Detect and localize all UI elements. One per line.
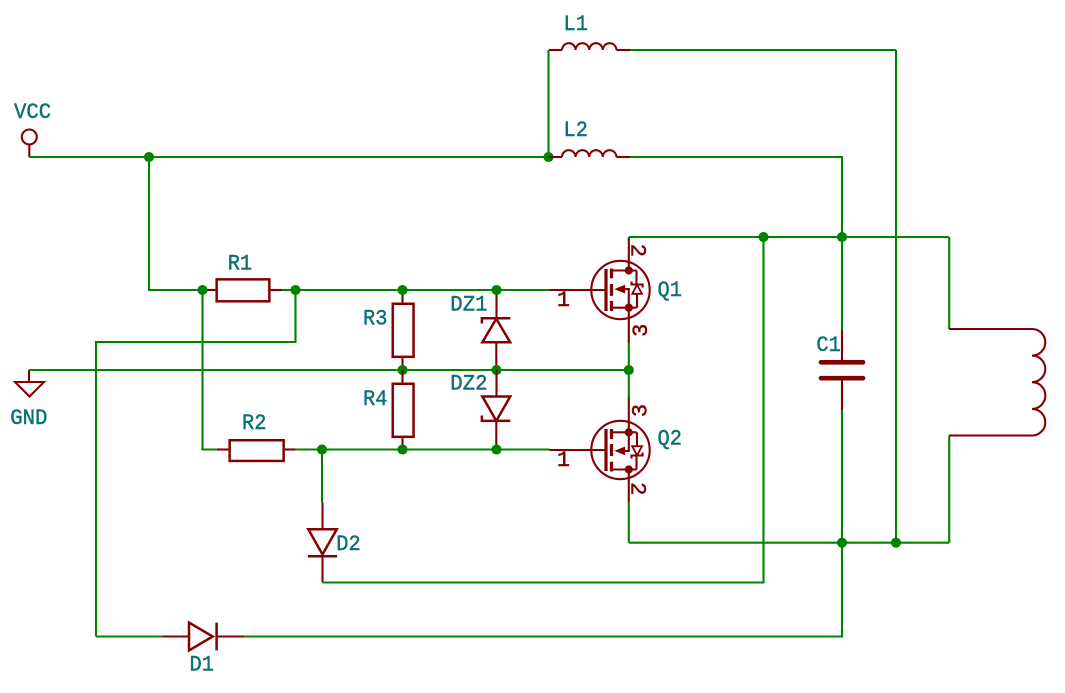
svg-text:GND: GND <box>10 406 47 431</box>
resistor R3 <box>393 290 414 370</box>
transistor Q1 <box>550 238 650 343</box>
svg-text:1: 1 <box>557 288 570 313</box>
wire L2 to top rail <box>630 157 842 237</box>
junction on VCC rail <box>144 152 154 162</box>
junction Q1/Q2 mid <box>624 365 634 375</box>
junction R3/R4 mid <box>397 365 407 375</box>
junction R2 right / D2 <box>317 444 327 454</box>
svg-text:Q1: Q1 <box>658 278 682 303</box>
junction bottom rail / C1 D1 <box>837 538 847 548</box>
svg-text:L1: L1 <box>564 12 588 37</box>
junction R1 left <box>197 285 207 295</box>
wire gate row Q1 <box>282 289 550 291</box>
svg-text:2: 2 <box>624 482 649 496</box>
wire work coil bottom <box>948 436 950 543</box>
junction DZ1/DZ2 mid <box>491 365 501 375</box>
junction R4 bottom <box>397 444 407 454</box>
svg-text:1: 1 <box>557 448 570 473</box>
wire R1 bypass loop <box>96 290 296 637</box>
junction top rail / L2 C1 <box>837 232 847 242</box>
zener diode DZ1 <box>482 290 510 370</box>
resistor R1 <box>207 279 282 301</box>
wire D2 drop <box>321 450 323 503</box>
inductor L2 <box>549 150 630 157</box>
wire gate row Q2 <box>296 448 550 450</box>
ground symbol <box>15 370 44 397</box>
inductor L1 <box>549 43 630 50</box>
svg-text:3: 3 <box>629 404 654 417</box>
wire L1 left drop <box>547 50 549 157</box>
svg-text:R1: R1 <box>228 252 252 277</box>
wire VCC drop to R1 <box>149 157 203 290</box>
wire D1 row right and rise <box>244 543 842 637</box>
capacitor C1 <box>821 331 863 411</box>
wire C1 top <box>841 237 843 331</box>
resistor R2 <box>217 440 296 461</box>
power symbol VCC <box>22 130 37 158</box>
svg-text:DZ1: DZ1 <box>450 293 487 318</box>
svg-text:Q2: Q2 <box>658 427 682 452</box>
svg-text:2: 2 <box>625 244 650 258</box>
wire bottom rail <box>629 542 949 544</box>
wire left drop to R2 <box>203 290 217 450</box>
svg-text:DZ2: DZ2 <box>450 372 487 397</box>
junction R1 right <box>290 285 300 295</box>
wire Q2 drain stub <box>628 502 630 543</box>
diode D1 <box>163 623 245 651</box>
wire Q1 source to mid <box>628 343 630 397</box>
junction bottom rail / L1 <box>891 538 901 548</box>
wire right side down to work coil <box>948 237 950 329</box>
work coil primary <box>949 329 1045 436</box>
zener diode DZ2 <box>482 370 510 450</box>
wire VCC rail <box>29 156 549 158</box>
svg-text:R3: R3 <box>363 306 387 331</box>
transistor Q2 <box>550 397 650 502</box>
wire top rail <box>629 236 949 238</box>
wire GND row <box>29 369 629 371</box>
junction DZ2 bottom <box>491 444 501 454</box>
wire right long vertical <box>895 50 897 543</box>
wire C1 bottom <box>841 410 843 543</box>
diode D2 <box>308 502 337 582</box>
svg-text:R4: R4 <box>363 387 387 412</box>
junction top rail / D2 return <box>758 232 768 242</box>
svg-text:3: 3 <box>629 324 654 337</box>
junction R3 top <box>397 285 407 295</box>
junction DZ1 top <box>491 285 501 295</box>
wire D1 row left <box>96 635 163 637</box>
svg-text:C1: C1 <box>816 333 840 358</box>
wire Q1 drain stub <box>628 237 630 239</box>
wire L1 to right vertical <box>630 49 896 51</box>
svg-text:VCC: VCC <box>14 100 51 125</box>
junction L1/L2 feed <box>543 152 553 162</box>
svg-text:D2: D2 <box>336 532 360 557</box>
svg-text:D1: D1 <box>190 653 214 678</box>
wire D2 return to top rail <box>323 237 764 583</box>
svg-text:L2: L2 <box>564 118 588 143</box>
resistor R4 <box>393 370 414 450</box>
svg-text:R2: R2 <box>242 411 266 436</box>
